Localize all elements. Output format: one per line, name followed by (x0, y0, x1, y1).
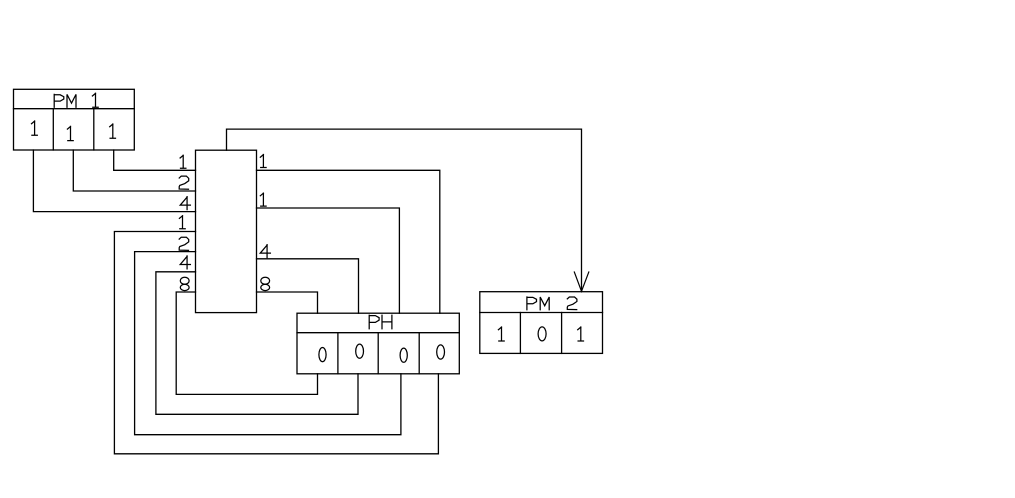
wire PH cell 2 to U1 pin 4b (left) (156, 272, 358, 415)
register PM 2 box (480, 292, 603, 354)
wire PH cell 1 to U1 pin 8 (left) (176, 292, 317, 394)
wire U1 pin 1 (right) to PH cell 4 top (257, 170, 440, 313)
U1 right pin label 1 (260, 155, 266, 168)
U1 left pin label 8 (180, 277, 189, 284)
wire PM1.bit1 to U1 pin 2 (73, 150, 195, 191)
PH bit value 0 (cell 3) (400, 348, 407, 362)
arrowhead into PM 2 (574, 272, 589, 291)
U1 right pin label 1 (second) (260, 193, 266, 206)
PH bit value 0 (cell 4) (437, 345, 445, 359)
wire U1 pin 1b (right) to PH cell 3 top (257, 208, 400, 313)
U1 right pin label 8 (261, 277, 270, 284)
U1 left pin label 4 (second) (180, 256, 190, 269)
U1 left pin label 2 (179, 176, 189, 189)
U1 right pin label 4 (260, 245, 270, 258)
U1 left pin label 2 (second) (179, 237, 189, 250)
wire PM1.bit0 to U1 pin 4 (33, 150, 195, 212)
PH bit value 0 (cell 2) (356, 344, 364, 358)
wire PH cell 3 to U1 pin 2b (left) (135, 252, 401, 435)
register PM 2 title "PM 2" (527, 297, 577, 310)
register PM 1 title "PM 1" (54, 93, 98, 107)
wire U1 pin 8 (right) to PH cell 1 top (257, 292, 318, 313)
decoder block U1 (196, 150, 257, 312)
PM 2 bit value 1 (cell 1) (498, 327, 504, 341)
wire U1 pin 4 (right) to PH cell 2 top (257, 259, 359, 313)
register PM 1 box (14, 89, 135, 150)
register PH title "PH" (369, 315, 392, 329)
wire PM1.bit2 to U1 pin 1 (114, 150, 196, 170)
PM 1 bit value 1 (cell 2) (67, 126, 73, 140)
wire PH cell 4 to U1 pin 1b (left) (114, 232, 438, 454)
PM 2 bit value 0 (cell 2) (538, 327, 546, 341)
U1 left pin label 4 (180, 197, 190, 210)
wire U1 top to PM 2 (select line) (227, 129, 582, 291)
PM 2 bit value 1 (cell 3) (578, 327, 584, 341)
U1 left pin label 1 (180, 155, 186, 168)
PM 1 bit value 1 (cell 1) (32, 121, 38, 135)
PM 1 bit value 1 (cell 3) (110, 124, 116, 138)
PH bit value 0 (cell 1) (319, 348, 326, 362)
register PH box (297, 313, 459, 374)
U1 left pin label 1 (second) (179, 216, 185, 229)
